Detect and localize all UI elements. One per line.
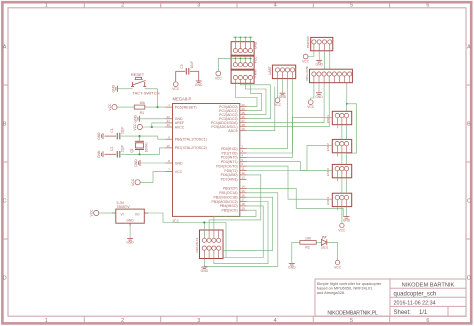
wire pwm1 to PC0 (235, 83, 257, 106)
wire nrf csn from PB5 (214, 210, 256, 230)
svg-text:GND: GND (134, 159, 138, 167)
wire nrf gnd rail from PB1 (205, 193, 278, 266)
wire nrf right entry from PB4 (223, 206, 264, 258)
svg-text:RESET: RESET (131, 72, 145, 77)
VCC at UART (275, 98, 280, 103)
svg-text:GND: GND (175, 161, 183, 165)
svg-text:GND: GND (126, 219, 134, 223)
wire gnd to R2 (292, 242, 300, 263)
svg-text:5: 5 (350, 3, 353, 9)
svg-text:1: 1 (45, 3, 48, 9)
svg-text:VCC: VCC (133, 123, 137, 131)
svg-text:PD1(TXD): PD1(TXD) (221, 151, 237, 155)
svg-text:VO: VO (135, 212, 140, 216)
wire pwm2 to PC3 (240, 83, 270, 118)
svg-text:11: 11 (242, 167, 245, 171)
svg-text:PB7(XTAL2/TOSC2): PB7(XTAL2/TOSC2) (175, 146, 207, 150)
svg-text:14: 14 (242, 185, 246, 189)
wire nrf right entry from PB2 (223, 197, 273, 250)
ground at MPU6050 (316, 92, 322, 94)
svg-text:VCC: VCC (274, 103, 282, 107)
wire UART RX to PD0 (247, 79, 288, 149)
svg-text:1/1: 1/1 (419, 310, 428, 316)
wire ESC1 signal from PD2 (247, 117, 333, 157)
title block frame (315, 279, 466, 316)
wire esc chain pin3 (346, 125, 348, 140)
svg-text:GND: GND (133, 115, 137, 123)
wire nrf mosi from PB3 (214, 202, 268, 264)
svg-text:A: A (467, 45, 471, 51)
svg-text:PB1(OC1A): PB1(OC1A) (219, 191, 237, 195)
VCC at IC VCC pin 7 (135, 180, 140, 185)
svg-text:GND: GND (253, 41, 257, 49)
ground at IC GND pin 22 (139, 116, 141, 122)
svg-text:VCC: VCC (108, 103, 112, 111)
svg-text:6: 6 (426, 3, 429, 9)
svg-text:ESC2: ESC2 (326, 143, 330, 151)
wire crystal top (139, 136, 141, 141)
svg-text:C3: C3 (180, 64, 184, 68)
svg-text:VCC: VCC (302, 60, 310, 64)
wire ESC3 signal from PD3 (247, 162, 333, 171)
wire xtal top node (121, 136, 166, 139)
ground at tact switch (117, 86, 119, 92)
svg-text:R1: R1 (140, 111, 145, 115)
svg-text:10k: 10k (139, 101, 145, 105)
NRF24L01 pin stubs (203, 230, 205, 238)
svg-text:VCC: VCC (253, 56, 257, 64)
connector VCC header (231, 56, 254, 69)
wire MPU int to ESC1 (347, 83, 357, 153)
wire gnd pin8 (140, 162, 166, 164)
svg-text:2: 2 (121, 3, 124, 9)
junction reset node (156, 106, 158, 108)
ground at C2 (102, 151, 104, 157)
svg-text:AVCC: AVCC (175, 125, 185, 129)
junction int branch (346, 103, 348, 105)
junction xtal1 (138, 135, 140, 137)
svg-text:PD3(INT1): PD3(INT1) (221, 160, 238, 164)
wire pwm4 to PC1 (247, 83, 262, 110)
wire vcc to regulator (99, 212, 112, 214)
wire R1 to IC reset pin (145, 106, 166, 108)
wire ESC2 signal from PD5 (247, 145, 333, 170)
wire nrf pin1 vcc (203, 223, 205, 238)
wire esc4 to vcc (341, 207, 343, 224)
junction xtal2 (138, 153, 140, 155)
VCC for reset pullup (112, 105, 117, 110)
svg-text:Q1: Q1 (130, 148, 134, 152)
wire MPU gnd pin (318, 83, 320, 93)
svg-text:2016-11-06 22:34: 2016-11-06 22:34 (394, 301, 436, 307)
wire C3 right to GND (198, 71, 200, 81)
svg-text:VCC: VCC (175, 170, 183, 174)
svg-text:PB3(MOSI/OC2): PB3(MOSI/OC2) (212, 200, 238, 204)
junction AREF/AVCC (151, 126, 153, 128)
svg-text:22pF: 22pF (121, 127, 125, 134)
svg-text:3: 3 (197, 3, 200, 9)
frame column ticks (83, 4, 85, 8)
svg-text:R2: R2 (305, 246, 310, 250)
svg-text:C: C (467, 199, 471, 205)
svg-text:VCC: VCC (307, 105, 315, 109)
connector GND header (231, 42, 254, 56)
wire AVCC (142, 126, 165, 128)
svg-text:VI: VI (121, 212, 124, 216)
svg-text:MEGA8-P: MEGA8-P (173, 97, 192, 102)
regulator IC2 7805TV 3.3V (116, 209, 145, 223)
svg-text:quadcopter_sch: quadcopter_sch (394, 291, 437, 297)
wire PB0 to esc gnd loop (247, 188, 344, 216)
ground at IC GND pin 8 (139, 160, 141, 166)
wire xtal bottom node (121, 148, 166, 154)
resistor R1 10k (117, 106, 134, 108)
svg-text:GND: GND (343, 219, 351, 223)
LED LED1 (316, 241, 321, 243)
ground at C1 (102, 133, 104, 139)
svg-text:1: 1 (45, 318, 48, 324)
svg-text:C2: C2 (110, 146, 114, 150)
svg-text:7805TV: 7805TV (116, 205, 130, 209)
wire C3 left to VCC (175, 71, 177, 81)
wire regulator gnd (129, 226, 131, 239)
svg-text:5: 5 (350, 318, 353, 324)
svg-text:2: 2 (121, 318, 124, 324)
svg-text:100: 100 (305, 236, 311, 240)
wire regulator 3.3V to NRF (148, 213, 226, 223)
svg-text:D: D (467, 276, 471, 282)
svg-text:VCC: VCC (338, 228, 346, 232)
frame row ticks (4, 84, 8, 86)
svg-text:GND: GND (201, 269, 209, 273)
svg-text:PD6(AIN0): PD6(AIN0) (221, 173, 238, 177)
svg-text:PB0(ICP): PB0(ICP) (223, 187, 238, 191)
wire BMP180 vcc pin (308, 51, 314, 57)
svg-text:19: 19 (242, 206, 246, 210)
svg-text:NIKODEM BARTNIK: NIKODEM BARTNIK (402, 282, 455, 288)
wire pwm3 to PC2 (245, 83, 266, 114)
svg-text:13: 13 (242, 175, 246, 179)
svg-text:GND: GND (111, 85, 115, 93)
VCC at LED (335, 260, 339, 264)
svg-text:4: 4 (274, 3, 277, 9)
wire SDA bus (247, 83, 325, 123)
svg-text:BMP180: BMP180 (306, 36, 310, 48)
svg-text:PB6(XTAL1/TOSC1): PB6(XTAL1/TOSC1) (175, 138, 207, 142)
wire UART vcc pin (277, 79, 279, 98)
wire BMP180 SCL down (329, 51, 331, 69)
svg-text:ESC1: ESC1 (326, 115, 330, 123)
IC1 left pin stubs (166, 106, 173, 108)
connector PWM header (231, 70, 254, 83)
svg-text:GND: GND (97, 150, 101, 158)
ground at ESC (344, 216, 350, 218)
VCC at ESC (340, 223, 344, 227)
ground at C3 (196, 80, 202, 82)
wire nrf gnd (203, 259, 205, 268)
svg-text:GND: GND (97, 132, 101, 140)
connector ESC4 (332, 193, 351, 206)
ground at regulator (127, 238, 133, 240)
wire UART TX to PD1 (247, 79, 293, 153)
VCC at MPU6050 (308, 100, 313, 105)
svg-text:and Atmega328.: and Atmega328. (317, 290, 345, 295)
svg-text:PWM: PWM (253, 69, 257, 77)
wire BMP180 gnd pin (318, 51, 320, 61)
ground at BMP180 (316, 59, 322, 61)
VCC at regulator input (94, 210, 99, 215)
wire UART gnd pin (282, 79, 284, 94)
wire LED to VCC (327, 242, 338, 260)
svg-text:A: A (3, 45, 7, 51)
wire VCC circle to header bus (218, 58, 231, 71)
svg-text:PD0(RXD): PD0(RXD) (221, 147, 238, 151)
wire int branch into ESC1 (346, 104, 348, 112)
IC1 right pin stubs (240, 106, 247, 108)
ground at UART (280, 92, 286, 94)
connector NRF24L01 (200, 230, 224, 259)
wire gnd to switch (118, 88, 133, 90)
svg-text:NRF24L01: NRF24L01 (195, 237, 199, 252)
VCC at C3 (173, 82, 178, 87)
svg-text:C: C (3, 199, 7, 205)
svg-text:VCC: VCC (215, 77, 223, 81)
GND header pin stubs (234, 42, 236, 49)
wire bus drop at nrf right (225, 223, 227, 258)
svg-text:GND: GND (288, 265, 296, 269)
svg-text:LED1: LED1 (321, 245, 329, 249)
wire MPU vcc pin (311, 83, 314, 100)
PWM header pin stubs (234, 80, 236, 84)
wire ESC4 signal from PD4 (247, 166, 333, 199)
connector UART (272, 65, 295, 79)
wire esc4 to gnd (346, 207, 348, 217)
IC U1 MEGA8-P body (173, 104, 240, 217)
svg-text:GND: GND (315, 95, 323, 99)
svg-text:GND: GND (126, 241, 134, 245)
UART pin stubs (277, 72, 279, 79)
svg-text:4: 4 (274, 318, 277, 324)
svg-text:VCC: VCC (334, 265, 342, 269)
svg-text:17: 17 (242, 198, 246, 202)
svg-text:VCC: VCC (172, 87, 180, 91)
svg-text:6: 6 (426, 318, 429, 324)
ground at LED circuit (289, 262, 295, 264)
svg-text:3: 3 (197, 318, 200, 324)
connector ESC3 (332, 164, 351, 177)
wire AREF to AVCC node (152, 123, 166, 127)
svg-text:22pF: 22pF (121, 145, 125, 152)
wire gnd pin22 (140, 118, 166, 120)
VCC at AVCC (137, 124, 142, 129)
svg-text:MPU-6050: MPU-6050 (305, 65, 309, 80)
svg-text:12: 12 (242, 171, 246, 175)
svg-text:ESC3: ESC3 (326, 168, 330, 176)
wire BMP180 SDA down (324, 51, 326, 69)
BMP180 pin stubs (313, 44, 315, 51)
wire crystal bottom (139, 150, 141, 155)
svg-text:19: 19 (242, 127, 246, 131)
MPU6050 pin stubs (313, 76, 315, 83)
wire SCL bus (247, 83, 330, 127)
wire VCC pin7 (140, 172, 165, 183)
connector ESC1 (332, 111, 351, 124)
svg-text:PD7(AIN1): PD7(AIN1) (221, 178, 238, 182)
svg-text:PC6(/RESET): PC6(/RESET) (175, 105, 197, 109)
wire ADC6 stub (247, 87, 275, 131)
svg-text:PB5(SCK): PB5(SCK) (221, 209, 237, 213)
wire esc chain pin2 (341, 125, 343, 140)
svg-text:Sheet:: Sheet: (394, 310, 412, 316)
svg-text:VCC: VCC (90, 209, 94, 217)
svg-text:NIKODEMBARTNIK.PL: NIKODEMBARTNIK.PL (327, 310, 377, 316)
connector ESC2 (332, 139, 351, 152)
VCC at BMP180 (303, 54, 308, 59)
svg-text:PD4(XCK/T0): PD4(XCK/T0) (216, 164, 237, 168)
svg-text:VCC: VCC (131, 178, 135, 186)
connector BMP180 (311, 37, 333, 50)
svg-text:D: D (3, 276, 7, 282)
svg-text:15: 15 (242, 189, 246, 193)
svg-text:ESC4: ESC4 (326, 197, 330, 205)
svg-text:16MHz: 16MHz (145, 142, 149, 153)
svg-text:20: 20 (167, 123, 171, 127)
svg-text:GND: GND (279, 95, 287, 99)
resistor R2 100 (300, 241, 316, 245)
svg-text:B: B (3, 122, 7, 128)
connector MPU6050 (310, 69, 353, 83)
ground at NRF24L01 (201, 266, 207, 268)
svg-text:10: 10 (167, 144, 171, 148)
svg-text:PD5(T1): PD5(T1) (224, 169, 237, 173)
VCC feed for header (216, 71, 221, 76)
svg-text:C1: C1 (110, 128, 114, 132)
svg-text:UART: UART (268, 66, 272, 75)
svg-text:ADC6: ADC6 (228, 129, 237, 133)
svg-text:GND: GND (195, 83, 203, 87)
VCC header bus (231, 57, 252, 59)
svg-text:B: B (467, 122, 471, 128)
svg-text:10uF: 10uF (190, 61, 194, 68)
wire nrf ce from PD6 (209, 175, 261, 230)
svg-text:GND: GND (316, 62, 324, 66)
junction nrf vcc (203, 221, 205, 223)
wire switch to reset node (145, 89, 158, 107)
svg-text:TACT-SWITCH: TACT-SWITCH (132, 91, 159, 96)
